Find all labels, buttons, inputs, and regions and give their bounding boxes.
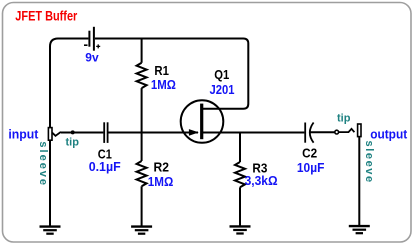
wire R1 vertical (top rail to gate node) [141, 39, 143, 63]
svg-text:sleeve: sleeve [363, 141, 375, 184]
ground R3 [230, 226, 251, 233]
transistor Q1 channel bar [200, 104, 203, 140]
wire output sleeve down [358, 137, 360, 226]
resistor R1 [137, 63, 147, 88]
battery B1 minus plate [88, 31, 90, 47]
wire C1 to gate (gate line) [109, 132, 199, 134]
ground R2 [131, 227, 152, 234]
wire R2 bottom to ground [141, 186, 143, 226]
svg-text:10µF: 10µF [297, 160, 325, 175]
ground input jack [40, 227, 61, 234]
svg-text:JFET Buffer: JFET Buffer [15, 9, 78, 24]
wire top rail to drain [95, 39, 248, 109]
resistor R2 [137, 161, 147, 186]
resistor R3 [235, 162, 245, 187]
svg-text:C2: C2 [302, 146, 317, 161]
wire R1 bottom to main line [141, 88, 143, 132]
wire source line (bar to C2) [203, 132, 304, 134]
wire input sleeve down [49, 140, 51, 226]
transistor Q1 circle [181, 100, 224, 143]
svg-text:R1: R1 [154, 63, 169, 78]
battery B1 plus plate [93, 27, 95, 51]
junction dot tip node [71, 130, 75, 134]
wire input tip to C1 [61, 132, 104, 134]
capacitor C1 right plate [107, 122, 109, 143]
output jack plug J-out [358, 124, 361, 137]
capacitor C2 curved plate [310, 123, 314, 143]
wire R2 vertical (gate node down) [141, 133, 143, 162]
wire output tip lever [339, 129, 355, 132]
output tip open contact circle [335, 130, 339, 134]
svg-text:Q1: Q1 [214, 67, 229, 82]
svg-text:1MΩ: 1MΩ [148, 174, 174, 189]
battery plus sign [96, 44, 100, 48]
svg-text:sleeve: sleeve [37, 141, 49, 187]
svg-text:0.1µF: 0.1µF [89, 159, 121, 174]
svg-text:input: input [8, 127, 39, 141]
svg-text:tip: tip [337, 113, 351, 125]
gate arrow [189, 129, 199, 136]
wire C2 to output tip contact [310, 131, 335, 133]
svg-text:R2: R2 [154, 159, 170, 174]
wire R3 bottom to ground [239, 187, 241, 225]
capacitor C1 left plate [103, 122, 105, 143]
ground output jack [349, 226, 370, 233]
svg-text:3,3kΩ: 3,3kΩ [245, 173, 278, 188]
wire R3 vertical [239, 133, 241, 163]
capacitor C2 straight plate [304, 123, 306, 143]
svg-text:1MΩ: 1MΩ [151, 77, 176, 92]
input jack plug J-in [48, 128, 52, 141]
svg-text:output: output [370, 127, 408, 141]
battery minus sign [84, 44, 88, 46]
svg-text:J201: J201 [210, 82, 235, 97]
input tip contact lever [52, 132, 61, 136]
wire left rail top (battery minus to input jack sleeve) [50, 39, 88, 128]
svg-text:tip: tip [66, 137, 80, 149]
svg-text:9v: 9v [85, 50, 99, 64]
